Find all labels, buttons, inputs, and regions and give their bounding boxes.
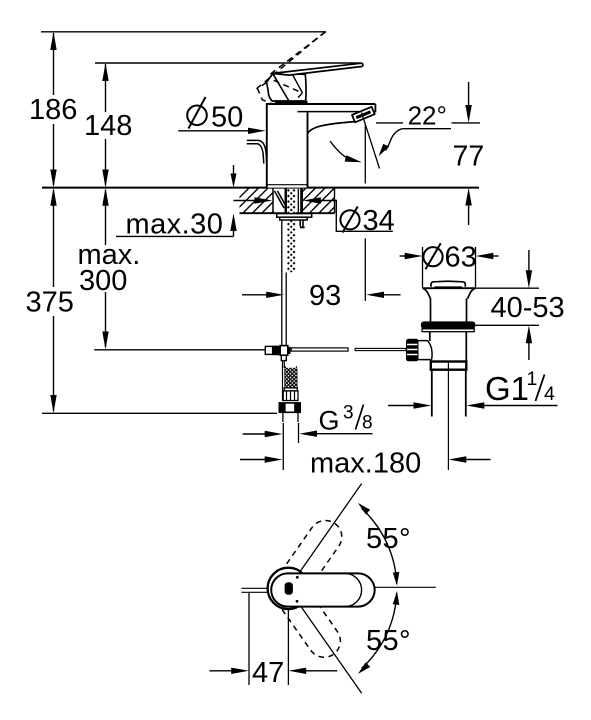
- svg-text:77: 77: [453, 140, 485, 172]
- extension line top (raised lever height 186): [41, 31, 326, 33]
- dimension diameter 63 arrows: [400, 253, 499, 259]
- 22 degrees slanted reference line: [362, 113, 380, 169]
- top view dashed handle rotated down 55: [264, 566, 346, 664]
- label diameter 34: [340, 205, 394, 237]
- top view angle arc upper: [358, 503, 399, 586]
- lever handle body solid: [267, 73, 306, 101]
- svg-text:93: 93: [309, 280, 341, 312]
- dimension 186 vertical line with arrows: [50, 32, 56, 188]
- top view radial line up: [288, 484, 361, 589]
- reference line hose bottom (375): [42, 412, 277, 414]
- mounting washer and nut below counter: [277, 214, 312, 229]
- aerator vertical axis line: [364, 124, 366, 301]
- svg-text:22°: 22°: [408, 101, 447, 131]
- top view radial line down: [288, 588, 361, 693]
- label 148: [84, 110, 132, 142]
- label 40-53: [491, 292, 565, 324]
- dimension G3/8 left arrow: [243, 431, 283, 437]
- svg-text:4: 4: [544, 383, 555, 405]
- popup locknut: [431, 362, 467, 370]
- label 375: [26, 287, 74, 319]
- svg-text:40-53: 40-53: [491, 292, 565, 324]
- dimension 93 arrows: [242, 292, 401, 298]
- faucet spout top plate: [266, 104, 376, 113]
- spout outlet reference line: [376, 122, 480, 124]
- lever handle blade solid: [273, 63, 363, 75]
- dimension max.30 arrows and underline: [116, 165, 237, 236]
- top view centerline right: [372, 586, 436, 588]
- dimension 40-53 reference lines and arrows: [473, 250, 539, 360]
- extension lines hose end: [283, 423, 298, 470]
- handle neck black band: [275, 101, 308, 104]
- svg-text:375: 375: [26, 287, 74, 319]
- top view base circle: [268, 568, 309, 609]
- popup waste body: [419, 332, 467, 362]
- label diameter 63: [423, 241, 476, 273]
- dimension 148 vertical line with arrows: [102, 63, 108, 188]
- label G 3/8 with leader arrow: [299, 402, 372, 437]
- popup knurled knob: [406, 339, 419, 362]
- svg-text:55°: 55°: [366, 523, 411, 555]
- svg-text:max.180: max.180: [310, 448, 421, 480]
- svg-text:63: 63: [445, 241, 477, 273]
- label max.180: [310, 448, 421, 480]
- label G1 1/4: [485, 368, 555, 407]
- extension line lever rest height 148: [95, 62, 362, 64]
- label max.30: [126, 208, 224, 240]
- top view dashed handle rotated up 55: [266, 514, 348, 612]
- dimension G1 1/4 arrows: [388, 402, 558, 408]
- top view angle arc lower: [358, 591, 399, 674]
- svg-text:55°: 55°: [366, 625, 411, 657]
- label 186: [29, 94, 77, 126]
- aerator at spout tip: [352, 107, 375, 123]
- pull rod below counter: [282, 220, 286, 346]
- label 55 degrees lower: [366, 625, 411, 657]
- svg-text:186: 186: [29, 94, 77, 126]
- flexible hose braided section: [279, 360, 300, 422]
- popup tailpipe: [432, 362, 466, 470]
- dimension 375 vertical line with arrows: [50, 188, 56, 414]
- top view handle right cap arc: [345, 573, 362, 606]
- faucet body: [267, 104, 308, 188]
- 22 degrees angle arc: [330, 141, 362, 162]
- label 47: [252, 657, 284, 689]
- top view handle slot: [285, 582, 293, 595]
- svg-text:300: 300: [79, 265, 127, 297]
- svg-text:G: G: [319, 405, 340, 435]
- dimension 47 extension lines and arrows: [209, 593, 337, 685]
- popup waste cap: [431, 281, 465, 287]
- label 55 degrees upper: [366, 523, 411, 555]
- svg-text:50: 50: [211, 102, 243, 134]
- popup waste flange: [423, 288, 476, 322]
- label 77: [453, 140, 485, 172]
- popup waste extension lines: [423, 247, 476, 288]
- pull rod hook behind faucet: [247, 140, 267, 163]
- rod cross fitting: [265, 346, 290, 361]
- faucet spout underside curve: [308, 122, 355, 134]
- label 93: [309, 280, 341, 312]
- svg-text:1: 1: [527, 368, 538, 390]
- countertop slab with hatch: [42, 188, 479, 214]
- svg-text:max.30: max.30: [126, 208, 224, 240]
- label diameter 50 with arrow: [178, 97, 265, 134]
- popup waste o-ring band: [421, 321, 476, 331]
- svg-text:G1: G1: [485, 370, 529, 407]
- label 22 degrees with underline: [402, 101, 451, 131]
- dimension 77 vertical line with arrows: [465, 82, 471, 225]
- label max. 300: [78, 239, 141, 297]
- reference line lever rod (max.300): [94, 349, 265, 351]
- svg-text:34: 34: [363, 205, 395, 237]
- top view screw dots: [296, 576, 299, 603]
- top view handle outline: [271, 573, 375, 606]
- dimension diameter 34 arrows with leader: [234, 197, 393, 231]
- popup lever rod horizontal: [291, 348, 406, 351]
- svg-text:148: 148: [84, 110, 132, 142]
- 22 degrees leader arrow: [379, 129, 403, 157]
- threaded shank through counter: [273, 188, 303, 272]
- dimension max.300 vertical line with arrows: [102, 188, 108, 350]
- dimension max.180 arrows: [240, 456, 491, 462]
- svg-text:3: 3: [343, 402, 354, 423]
- svg-text:8: 8: [362, 413, 373, 434]
- top view pull rod stub: [242, 588, 271, 592]
- svg-text:47: 47: [252, 657, 284, 689]
- lever handle dashed (raised position): [257, 32, 326, 104]
